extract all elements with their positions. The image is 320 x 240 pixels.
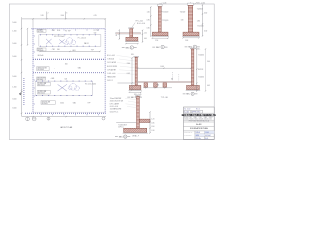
svg-text:0.45: 0.45	[127, 73, 130, 75]
svg-text:B.S.L +0.45: B.S.L +0.45	[107, 55, 115, 57]
plan label box 3	[37, 77, 68, 81]
svg-text:GB1: GB1	[157, 84, 160, 86]
plan dashed circles lower (tank footprint)	[68, 84, 79, 91]
plan north-arrow symbol	[19, 91, 23, 95]
svg-text:21544: 21544	[184, 119, 188, 121]
svg-text:S-01: S-01	[205, 138, 208, 140]
section A wall cap	[129, 28, 134, 29]
svg-text:3.40: 3.40	[207, 61, 210, 63]
svg-text:TYP: TYP	[88, 102, 91, 104]
plan top strip-footing line	[32, 28, 106, 30]
svg-text:+0.45: +0.45	[163, 2, 167, 4]
svg-text:G.LVL +0.00: G.LVL +0.00	[107, 73, 115, 75]
svg-text:5.000: 5.000	[12, 76, 16, 78]
svg-text:DESIGNED BY: DESIGNED BY	[184, 132, 192, 134]
svg-text:AL AIN: AL AIN	[196, 123, 202, 126]
plan middle strip-footing line upper	[33, 58, 105, 60]
section C blinding layer	[182, 35, 200, 37]
svg-text:F1 - 1.6x1.6: F1 - 1.6x1.6	[78, 38, 86, 40]
svg-text:~ TB1: ~ TB1	[51, 30, 55, 32]
svg-text:RC COL 20x60: RC COL 20x60	[85, 83, 96, 85]
svg-text:~ TB1: ~ TB1	[51, 49, 55, 51]
svg-text:500: 500	[94, 33, 97, 35]
section C label	[185, 45, 200, 49]
section A leader texts	[132, 21, 145, 28]
svg-text:P.O.B: P.O.B	[184, 117, 188, 119]
big section pedestal dimension line	[143, 87, 172, 88]
svg-text:1:100: 1:100	[205, 132, 209, 134]
svg-text:BLOCK: BLOCK	[198, 69, 203, 71]
section A wall stem	[130, 29, 133, 38]
svg-text:RC COL 20x60: RC COL 20x60	[54, 36, 64, 38]
svg-text:0.45: 0.45	[207, 85, 210, 87]
plan right strip-footing line	[104, 29, 106, 114]
section E slab right	[139, 119, 150, 122]
section C left texts	[180, 12, 186, 22]
section A label	[122, 46, 137, 50]
big section small texts near slab	[157, 79, 174, 87]
svg-text:8.00: 8.00	[57, 30, 60, 32]
plan bracing X upper-right	[59, 40, 64, 44]
big section left footing	[129, 85, 141, 89]
plan left strip-footing line	[32, 29, 34, 114]
svg-text:50 P.C.C: 50 P.C.C	[107, 80, 113, 82]
big section left wall stem	[135, 57, 137, 85]
svg-text:SEC: SEC	[126, 47, 131, 49]
section A slab left line	[116, 33, 130, 35]
plan label box 4	[37, 82, 50, 86]
plan label box 1	[37, 29, 55, 33]
svg-text:2: 2	[162, 47, 163, 49]
svg-text:66123: 66123	[199, 119, 203, 121]
svg-text:1.50: 1.50	[155, 40, 158, 42]
plan middle strip-footing line lower	[33, 72, 105, 74]
svg-text:SEC: SEC	[156, 47, 161, 49]
big section right dimension column	[196, 48, 210, 91]
section E blinding layer	[123, 132, 148, 134]
plan left dimension line	[21, 17, 22, 116]
svg-text:T12@20: T12@20	[197, 9, 203, 11]
svg-text:T12@20: T12@20	[197, 26, 203, 28]
section A footing	[126, 37, 138, 41]
svg-text:500: 500	[65, 79, 68, 81]
big section right wall stem	[191, 49, 194, 86]
plan bottom strip-footing line	[25, 112, 106, 115]
svg-text:~ GB1: ~ GB1	[50, 78, 54, 80]
big section right label	[183, 92, 198, 95]
svg-text:0.10: 0.10	[151, 130, 154, 132]
svg-text:500: 500	[65, 64, 68, 66]
section C wall stem	[188, 5, 193, 32]
svg-text:DRG No: DRG No	[196, 138, 201, 140]
big section dimension above slab	[137, 66, 192, 69]
section B top cap	[158, 3, 162, 6]
svg-text:1.200: 1.200	[12, 31, 16, 33]
section B top level text	[160, 2, 166, 4]
big section right footing	[187, 85, 200, 89]
svg-text:5: 5	[192, 94, 193, 96]
svg-text:8.00: 8.00	[161, 66, 164, 68]
svg-text:TEL: TEL	[199, 117, 202, 119]
plan right side notes column	[107, 55, 134, 82]
svg-text:3.20: 3.20	[41, 15, 44, 17]
svg-text:T12@20: T12@20	[198, 55, 204, 57]
svg-text:200mm BLOCK WK: 200mm BLOCK WK	[110, 101, 123, 103]
svg-text:500: 500	[57, 49, 60, 51]
svg-text:76122: 76122	[194, 119, 198, 121]
section A slab right stub	[133, 33, 141, 35]
svg-text:F1 TYP: F1 TYP	[94, 30, 99, 32]
svg-text:GB 20x40: GB 20x40	[37, 69, 44, 71]
section E notes column	[110, 97, 137, 114]
plan bracing X lower	[58, 84, 67, 91]
plan label box mid strip	[37, 67, 55, 71]
svg-text:T12@20 B.W: T12@20 B.W	[118, 124, 127, 126]
section C level text	[194, 2, 205, 4]
title block project row	[184, 120, 215, 127]
svg-text:G.B 20x40: G.B 20x40	[107, 59, 114, 61]
svg-text:05-2004: 05-2004	[205, 135, 211, 137]
big section opening dashed line	[173, 72, 179, 81]
plan bracing X upper-left	[46, 39, 52, 44]
svg-text:0.90: 0.90	[147, 20, 150, 22]
big section pedestal 1	[144, 83, 148, 87]
svg-text:312: 312	[210, 119, 212, 121]
svg-text:F1 TYP: F1 TYP	[65, 31, 70, 33]
svg-text:GB 20x40: GB 20x40	[37, 79, 43, 81]
svg-text:5500: 5500	[60, 102, 64, 104]
section A blinding layer	[125, 41, 139, 43]
section B left dimension column	[147, 6, 152, 36]
plan label box 2	[37, 48, 55, 57]
svg-text:0.50: 0.50	[151, 126, 154, 128]
svg-text:45: 45	[116, 34, 118, 36]
big section pedestal 2	[154, 83, 158, 87]
svg-text:0.30: 0.30	[147, 27, 150, 29]
section E footing leader texts	[118, 124, 127, 128]
svg-text:0.45: 0.45	[151, 122, 154, 124]
title block company header	[182, 113, 217, 117]
big section left blinding	[129, 89, 142, 91]
big section right blinding	[186, 89, 201, 91]
svg-text:N.G.L +0.00: N.G.L +0.00	[196, 2, 205, 4]
grid tick A top	[47, 12, 49, 19]
section C bottom dimensions	[182, 37, 199, 42]
big section middle label	[161, 97, 168, 99]
title block outer box	[184, 107, 215, 140]
section B label	[152, 45, 167, 49]
big section left footing dimension	[129, 92, 142, 93]
svg-text:GB1: GB1	[72, 50, 75, 52]
svg-text:~: ~	[54, 68, 55, 70]
svg-text:2.60: 2.60	[127, 63, 130, 65]
plan dimension line below lower rect	[41, 101, 90, 105]
section B footing	[152, 32, 168, 36]
svg-text:CHECKED BY: CHECKED BY	[184, 135, 192, 137]
svg-text:0.60: 0.60	[204, 12, 207, 14]
svg-text:1.200: 1.200	[12, 87, 16, 89]
big section slab	[137, 81, 191, 83]
sheet border frame	[9, 4, 214, 140]
plan dimension line below upper rect	[39, 51, 100, 52]
section E label	[115, 134, 139, 138]
svg-text:50mm P.C.C: 50mm P.C.C	[110, 111, 119, 113]
svg-text:BLOCK WORK: BLOCK WORK	[107, 66, 117, 68]
title block drawing title row	[184, 127, 215, 131]
svg-text:1.60: 1.60	[185, 40, 188, 42]
plan dashed circles upper (tank footprint)	[65, 38, 76, 45]
svg-text:BOX: BOX	[210, 117, 213, 119]
section A left dimension	[116, 29, 120, 39]
section E footing	[124, 128, 147, 132]
svg-text:1.80: 1.80	[197, 21, 200, 23]
svg-text:No. 1042: No. 1042	[184, 109, 190, 111]
big section left label	[127, 95, 142, 98]
big section left wall dims	[127, 57, 133, 90]
svg-text:GB 20x40: GB 20x40	[42, 103, 48, 105]
svg-text:BM 20x40: BM 20x40	[38, 85, 45, 87]
plan left edge column ticks	[34, 36, 35, 104]
section E wall cap	[135, 95, 140, 98]
plan left dimension texts	[12, 22, 16, 109]
svg-text:GB1: GB1	[78, 68, 81, 70]
plan bottom dimension line with bubbles	[22, 116, 106, 121]
svg-text:T12@20: T12@20	[162, 12, 168, 14]
plan secondary left dimension line	[27, 28, 28, 46]
plan top edge column ticks	[41, 29, 99, 30]
section C right dimension column	[197, 4, 207, 36]
section E ground line left	[116, 121, 136, 123]
section E right dimension column	[149, 111, 154, 133]
svg-text:T12@20: T12@20	[162, 20, 168, 22]
svg-text:5.000: 5.000	[12, 22, 16, 24]
section C footing	[183, 32, 199, 36]
svg-text:1.20: 1.20	[151, 119, 154, 121]
svg-text:G.LVL +0.00: G.LVL +0.00	[110, 106, 118, 108]
svg-text:1.80: 1.80	[181, 20, 184, 22]
svg-text:1: 1	[131, 47, 132, 49]
svg-text:GB1: GB1	[73, 102, 76, 104]
svg-text:50 P.C.C: 50 P.C.C	[118, 127, 123, 129]
section C top cap	[187, 2, 193, 6]
section E wall stem	[137, 97, 140, 129]
svg-text:N.G.L +0.00: N.G.L +0.00	[137, 23, 145, 25]
svg-text:F.F.L: F.F.L	[131, 54, 134, 56]
section E top text	[134, 94, 141, 96]
svg-text:5.000: 5.000	[12, 98, 16, 100]
svg-text:SEC: SEC	[119, 136, 124, 138]
svg-text:F.F.L +0.45: F.F.L +0.45	[136, 21, 143, 23]
svg-text:BM 20x40: BM 20x40	[38, 31, 44, 33]
svg-text:4.15: 4.15	[94, 15, 97, 17]
svg-text:6: 6	[125, 136, 126, 138]
svg-text:1.20: 1.20	[144, 32, 147, 34]
svg-text:BM 20x40: BM 20x40	[38, 93, 45, 95]
plan label box 5	[37, 90, 50, 94]
section B blinding layer	[152, 35, 169, 37]
big section right wall cap	[190, 48, 200, 50]
title block info columns	[184, 116, 215, 121]
svg-text:76121: 76121	[189, 119, 193, 121]
section A right dimension	[142, 30, 147, 43]
section B right dimension texts	[161, 11, 168, 22]
svg-text:8.00: 8.00	[61, 15, 64, 17]
svg-text:1.20: 1.20	[147, 12, 150, 14]
plan inner footing rectangle lower	[35, 81, 92, 95]
svg-text:0.30: 0.30	[204, 31, 207, 33]
svg-text:Rev 0: Rev 0	[196, 109, 200, 111]
svg-text:FOUNDATION PLAN: FOUNDATION PLAN	[190, 127, 208, 130]
section A bottom dimension	[125, 43, 138, 44]
section B bottom dimensions	[152, 38, 169, 43]
plan annotation texts upper	[54, 30, 98, 45]
svg-text:GB: GB	[171, 79, 173, 81]
big section pedestal 3	[163, 83, 167, 87]
plan annotation texts mid	[57, 49, 94, 70]
svg-text:GB 20x40: GB 20x40	[38, 55, 44, 57]
svg-text:5.000: 5.000	[12, 43, 16, 45]
title block bottom grid	[184, 131, 214, 140]
svg-text:LAYOUT PLAN: LAYOUT PLAN	[60, 126, 73, 129]
svg-text:TYP: TYP	[91, 49, 94, 51]
svg-text:TEL: TEL	[189, 117, 192, 119]
svg-text:66124: 66124	[205, 119, 209, 121]
plan top dimension line	[22, 15, 106, 28]
svg-text:T12@20: T12@20	[180, 12, 186, 14]
big section left wall cap	[131, 54, 139, 57]
svg-text:5.000: 5.000	[12, 56, 16, 58]
plan annotation texts lower	[60, 83, 96, 104]
svg-text:5.000: 5.000	[12, 108, 16, 110]
svg-text:TYP - GB: TYP - GB	[161, 97, 168, 99]
section B wall stem	[158, 6, 161, 32]
big section ground line left of wall	[118, 82, 135, 84]
svg-text:0.40: 0.40	[144, 38, 147, 40]
svg-text:T12@20: T12@20	[198, 76, 204, 78]
title block stamp boxes row	[184, 109, 203, 114]
plan title text	[60, 126, 73, 129]
plan porch strip-footing line left	[23, 78, 25, 105]
svg-text:2: 2	[48, 12, 49, 14]
plan inner footing rectangle upper	[39, 35, 101, 46]
grid tick B top	[66, 12, 68, 19]
